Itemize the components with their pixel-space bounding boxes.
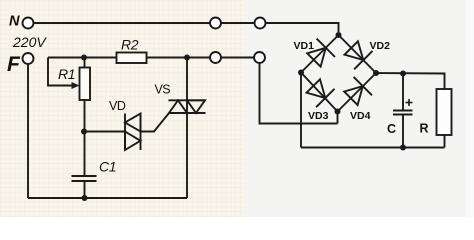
capacitor C: [393, 111, 413, 115]
svg-text:VD4: VD4: [350, 110, 371, 122]
node junction R1 top: [81, 55, 87, 61]
wire R bottom stub: [444, 135, 446, 148]
wire R1 top stub: [84, 58, 86, 68]
wire bridge left vertex down: [300, 73, 302, 148]
wire triac through: [186, 100, 188, 113]
svg-text:R2: R2: [121, 37, 139, 53]
node junction bottom rail: [82, 195, 88, 201]
wire diac tap to diac: [84, 131, 125, 133]
svg-text:N: N: [9, 14, 20, 30]
svg-text:C: C: [387, 122, 396, 136]
wire C bottom stub: [402, 115, 404, 148]
wire triac anode up: [186, 58, 188, 101]
wire top rail right to bridge: [266, 23, 339, 32]
resistor R1: [80, 68, 91, 101]
diode VD4: [344, 77, 372, 105]
bridge edge left-top: [301, 35, 339, 73]
wire top rail left: [34, 22, 211, 24]
node junction C top: [400, 71, 406, 77]
wire C top stub: [402, 74, 404, 111]
bridge edge top-right: [339, 35, 377, 73]
bridge edge left-bottom: [301, 73, 338, 112]
terminal load input top: [255, 18, 266, 29]
terminal dimmer output top: [210, 18, 221, 29]
wire bottom connector link: [221, 57, 254, 59]
diode VD3: [307, 79, 335, 107]
node bridge top vertex: [336, 32, 342, 38]
terminal dimmer output bottom: [210, 52, 221, 63]
C polarity plus: [406, 99, 413, 106]
wire triac cathode down: [186, 113, 188, 198]
diac VD: [125, 114, 141, 151]
wire R1 wiper loop: [48, 58, 74, 86]
wire bridge bottom vertex stub: [337, 112, 339, 124]
svg-text:VD: VD: [109, 99, 126, 113]
diode VD1: [307, 39, 335, 67]
triac VS: [169, 100, 206, 113]
node bridge bottom vertex: [335, 109, 341, 115]
node bridge left vertex: [298, 70, 304, 76]
svg-text:R: R: [420, 122, 429, 136]
bridge edge bottom-right: [338, 73, 377, 112]
svg-text:F: F: [7, 53, 21, 76]
terminal load input bottom: [254, 52, 265, 63]
svg-text:220V: 220V: [12, 34, 47, 50]
wire phase down rail: [27, 64, 29, 198]
wire bottom rail right: [301, 147, 445, 149]
capacitor C1: [72, 176, 97, 181]
wire top connector link: [221, 22, 255, 24]
node bridge right vertex: [373, 70, 379, 76]
wire R2 to triac junction: [147, 57, 211, 59]
node junction C bottom: [400, 145, 406, 151]
terminal N: [23, 18, 34, 29]
svg-text:R1: R1: [58, 66, 75, 82]
wire diac to gate: [141, 113, 170, 132]
svg-text:VD2: VD2: [370, 40, 391, 52]
diode VD2: [345, 41, 373, 69]
svg-text:VD3: VD3: [308, 110, 329, 122]
svg-text:VD1: VD1: [294, 40, 315, 52]
wire load input bottom to bridge: [260, 63, 338, 124]
svg-text:VS: VS: [155, 83, 171, 97]
resistor R2: [117, 53, 147, 64]
wire R1 top row: [48, 57, 117, 59]
R1 wiper arrowhead: [72, 82, 80, 89]
wire C1 bottom stub: [84, 181, 86, 198]
node junction diac tap: [81, 129, 87, 135]
wire bottom rail left: [28, 197, 187, 199]
resistor R: [437, 89, 452, 135]
node junction triac top: [184, 55, 190, 61]
terminal F: [23, 53, 34, 64]
svg-text:C1: C1: [99, 159, 116, 175]
wire bridge right vertex to load: [376, 73, 445, 89]
wire R1 bottom to C1: [84, 100, 86, 176]
